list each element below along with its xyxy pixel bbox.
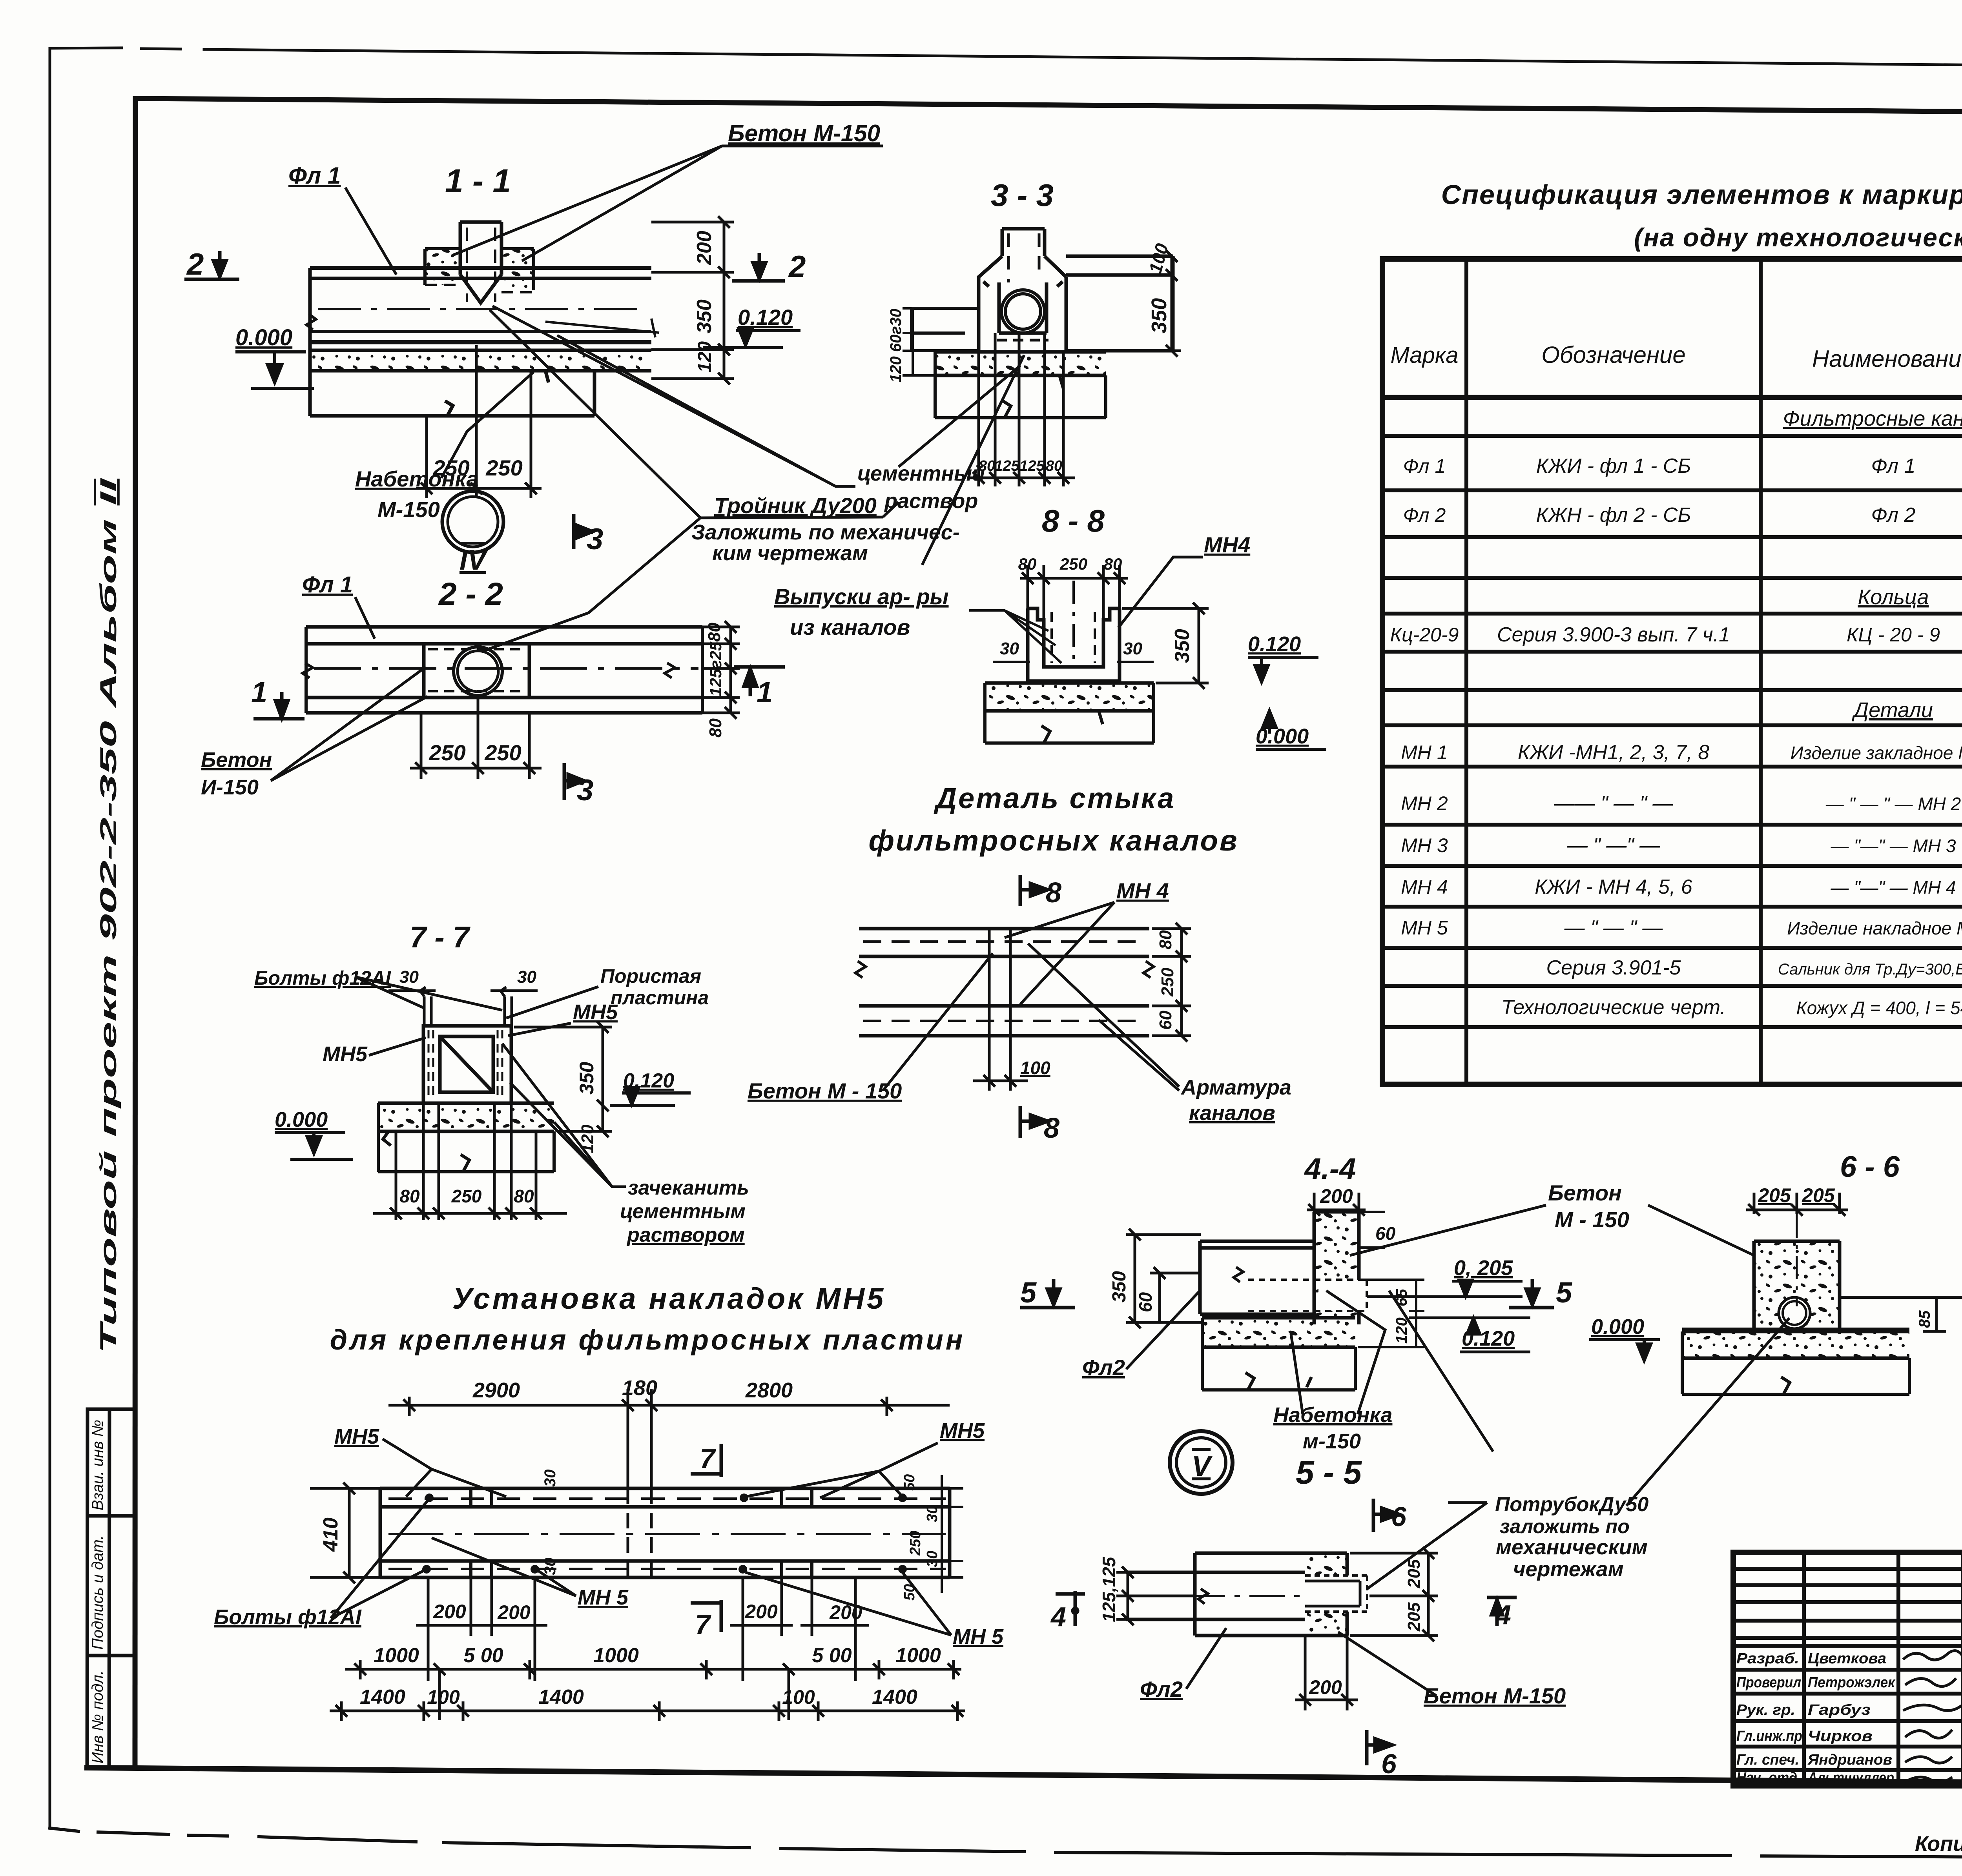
svg-text:цементным: цементным bbox=[620, 1200, 746, 1223]
svg-text:200: 200 bbox=[829, 1601, 862, 1623]
concrete column 4-4 bbox=[1248, 1212, 1367, 1324]
svg-text:Альтшуллер: Альтшуллер bbox=[1807, 1770, 1894, 1786]
svg-text:2: 2 bbox=[788, 249, 806, 284]
node marker IV circled bbox=[442, 491, 503, 576]
stipple strip below 4-4 bbox=[1202, 1318, 1355, 1390]
svg-text:Разраб.: Разраб. bbox=[1736, 1650, 1799, 1667]
svg-text:механическим: механическим bbox=[1496, 1535, 1648, 1559]
cut marker 5 (right) bbox=[1509, 1276, 1573, 1309]
svg-text:0.000: 0.000 bbox=[1591, 1315, 1644, 1339]
dim 350 (8-8) bbox=[1122, 603, 1209, 689]
svg-text:5: 5 bbox=[1556, 1276, 1573, 1309]
junction square 2-2 bbox=[424, 644, 529, 698]
right dim chain 1-1 bbox=[651, 216, 734, 384]
drawing frame bottom bbox=[87, 1768, 1962, 1786]
right dim chain (styka) bbox=[1152, 923, 1191, 1042]
section cut marker 2 (right) bbox=[732, 249, 806, 284]
U channel 8-8 bbox=[1028, 608, 1120, 681]
svg-text:1000: 1000 bbox=[895, 1644, 941, 1667]
mid dims 65/120 (4-4) bbox=[1358, 1280, 1424, 1347]
svg-text:0.000: 0.000 bbox=[275, 1108, 328, 1131]
right dim 205/205 (5-5) bbox=[1350, 1547, 1438, 1641]
svg-text:Наименование: Наименование bbox=[1812, 346, 1962, 372]
small dim 70 inside slab bbox=[545, 319, 659, 337]
svg-text:125: 125 bbox=[1019, 458, 1045, 474]
cut marker 6 (bottom) bbox=[1367, 1730, 1397, 1779]
svg-text:каналов: каналов bbox=[1189, 1101, 1275, 1125]
top dim 80 250 80 (8-8) bbox=[1020, 565, 1128, 620]
svg-text:— " —" —: — " —" — bbox=[1567, 834, 1660, 857]
svg-text:Набетонка: Набетонка bbox=[1273, 1403, 1392, 1427]
svg-text:350: 350 bbox=[1171, 629, 1194, 663]
svg-text:30: 30 bbox=[517, 967, 536, 987]
title block signature labels bbox=[1736, 1650, 1896, 1786]
svg-text:1: 1 bbox=[251, 676, 267, 709]
left dim chain 3-3 bbox=[903, 308, 950, 375]
channel stub 3-3 bbox=[1002, 229, 1045, 282]
right dim chain 2-2 bbox=[702, 621, 740, 719]
label Fl2 (4-4) bbox=[1082, 1291, 1200, 1380]
slab left 3-3 bbox=[912, 308, 979, 351]
section cut marker 3 (bottom) bbox=[564, 763, 593, 807]
drawing frame top bbox=[135, 98, 1962, 115]
level mark 0.120 (1-1) bbox=[703, 305, 800, 348]
section cut marker 3 (top) bbox=[574, 514, 603, 556]
svg-text:30: 30 bbox=[1123, 639, 1142, 658]
svg-text:— "—" — МН 3: — "—" — МН 3 bbox=[1831, 836, 1956, 856]
svg-text:4: 4 bbox=[1050, 1601, 1066, 1632]
centerline 5-5 bbox=[1130, 1595, 1303, 1597]
joint verticals bbox=[989, 929, 1010, 1036]
svg-text:чертежам: чертежам bbox=[1513, 1557, 1624, 1581]
30 dims (7-7) bbox=[388, 989, 538, 992]
right dims 85 (6-6) bbox=[1923, 1297, 1946, 1331]
svg-text:(на одну технологическую сек: (на одну технологическую секцию) bbox=[1634, 223, 1962, 252]
label MN5 top-left (plan) bbox=[334, 1425, 506, 1497]
svg-text:0.120: 0.120 bbox=[1248, 632, 1301, 656]
dim 100 below (styka) bbox=[973, 1036, 1028, 1091]
svg-text:Кц-20-9: Кц-20-9 bbox=[1390, 624, 1459, 646]
label bolty f12AI (plan) bbox=[214, 1501, 428, 1629]
stipple base (7-7) bbox=[378, 1103, 554, 1172]
right side small dims (plan) bbox=[942, 1475, 963, 1593]
label MN5 left (7-7) bbox=[323, 1038, 426, 1066]
svg-text:200: 200 bbox=[1309, 1676, 1342, 1698]
plan band bbox=[380, 1488, 950, 1577]
svg-text:Спецификация элементов к ма: Спецификация элементов к маркировочной с… bbox=[1441, 179, 1962, 210]
label Beton M-150 (between 4-4 and 6-6) bbox=[1350, 1180, 1754, 1255]
svg-text:м-150: м-150 bbox=[1303, 1430, 1361, 1453]
svg-text:80: 80 bbox=[514, 1186, 534, 1206]
svg-text:250: 250 bbox=[1158, 967, 1177, 997]
svg-text:30: 30 bbox=[542, 1470, 559, 1487]
svg-text:7 - 7: 7 - 7 bbox=[410, 921, 471, 954]
svg-text:1400: 1400 bbox=[872, 1686, 917, 1708]
label Nabetonka M-150 (4-4) bbox=[1273, 1291, 1392, 1453]
svg-text:60: 60 bbox=[1135, 1292, 1156, 1312]
svg-text:МН 5: МН 5 bbox=[578, 1586, 629, 1609]
svg-text:Выпуски ар- ры: Выпуски ар- ры bbox=[774, 584, 949, 609]
section cut marker 1 (left of 2-2) bbox=[251, 676, 305, 719]
svg-text:4.-4: 4.-4 bbox=[1304, 1152, 1356, 1186]
left dim 125/125 (5-5) bbox=[1116, 1566, 1193, 1625]
svg-text:80: 80 bbox=[706, 718, 725, 738]
svg-text:Подпись и дат.: Подпись и дат. bbox=[89, 1535, 106, 1650]
svg-text:из каналов: из каналов bbox=[790, 615, 910, 639]
svg-text:Яндрианов: Яндрианов bbox=[1807, 1752, 1892, 1768]
svg-text:фильтросных каналов: фильтросных каналов bbox=[868, 824, 1238, 857]
band 4-4 bbox=[1200, 1241, 1314, 1314]
label MN4 (styka) bbox=[1005, 878, 1169, 1004]
svg-text:Набетонка: Набетонка bbox=[355, 466, 479, 491]
svg-text:— " — " — МН 2: — " — " — МН 2 bbox=[1825, 794, 1961, 814]
svg-text:1400: 1400 bbox=[538, 1686, 584, 1708]
cut marker 4 (left) bbox=[1050, 1591, 1085, 1632]
svg-text:8 - 8: 8 - 8 bbox=[1042, 503, 1105, 538]
svg-text:6: 6 bbox=[1381, 1749, 1397, 1779]
sheet outer border top (partly dashed) bbox=[50, 48, 1962, 70]
svg-text:0.000: 0.000 bbox=[235, 325, 292, 350]
svg-text:80: 80 bbox=[705, 623, 724, 642]
svg-text:МН 4: МН 4 bbox=[1116, 878, 1169, 903]
cut marker 6 (top) bbox=[1373, 1499, 1407, 1532]
svg-text:IV: IV bbox=[460, 545, 489, 576]
svg-text:Кольца: Кольца bbox=[1858, 585, 1929, 609]
svg-text:МН5: МН5 bbox=[334, 1425, 379, 1448]
svg-text:Чирков: Чирков bbox=[1808, 1728, 1873, 1745]
svg-text:МН 1: МН 1 bbox=[1401, 741, 1448, 763]
top dim row (2900|180|2800) bbox=[388, 1389, 950, 1452]
band 5-5 thin left part bbox=[1126, 1572, 1195, 1619]
svg-text:125: 125 bbox=[994, 458, 1019, 474]
drawing frame left bbox=[135, 98, 135, 1768]
svg-text:100: 100 bbox=[427, 1686, 460, 1708]
right dim 350/100 (3-3) bbox=[1150, 250, 1181, 357]
svg-text:Бетон М-150: Бетон М-150 bbox=[728, 120, 880, 146]
level 0.120 (7-7) bbox=[610, 1069, 691, 1106]
svg-text:125,125: 125,125 bbox=[1099, 1556, 1119, 1622]
svg-text:2900: 2900 bbox=[472, 1379, 520, 1402]
svg-text:2 - 2: 2 - 2 bbox=[438, 576, 503, 612]
level 0.000 (7-7) bbox=[275, 1108, 353, 1159]
bolt dots on plan bbox=[422, 1494, 907, 1574]
svg-text:8: 8 bbox=[1046, 877, 1061, 909]
svg-text:зачеканить: зачеканить bbox=[628, 1177, 749, 1199]
svg-text:V: V bbox=[1192, 1451, 1213, 1482]
svg-text:Инв № подл.: Инв № подл. bbox=[89, 1670, 106, 1763]
svg-text:3 - 3: 3 - 3 bbox=[991, 178, 1054, 213]
svg-text:Фл 1: Фл 1 bbox=[288, 162, 341, 189]
label vypuski ar-ry bbox=[774, 584, 1061, 663]
svg-text:1000: 1000 bbox=[374, 1644, 419, 1667]
stipple base 3-3 bbox=[935, 352, 1106, 375]
svg-text:200: 200 bbox=[744, 1601, 778, 1623]
label cement mortar bbox=[492, 306, 985, 513]
sheet outer border left bbox=[49, 48, 51, 1828]
bottom dim 80|250|80 (7-7) bbox=[373, 1103, 567, 1220]
svg-text:80: 80 bbox=[1018, 555, 1037, 573]
level 0.120 (8-8) bbox=[1248, 632, 1318, 682]
svg-text:МН5: МН5 bbox=[940, 1419, 985, 1443]
foundation slab 1-1 bbox=[310, 371, 594, 416]
svg-text:250: 250 bbox=[907, 1531, 924, 1556]
svg-text:200: 200 bbox=[497, 1601, 531, 1623]
label Fl2 (5-5) bbox=[1140, 1628, 1226, 1701]
svg-text:Арматура: Арматура bbox=[1180, 1076, 1291, 1099]
foundation below 3-3 bbox=[935, 352, 1106, 418]
label Beton M-150 (2-2) bbox=[201, 667, 428, 799]
label Fl1 (1-1) bbox=[288, 162, 396, 275]
svg-text:заложить по: заложить по bbox=[1500, 1515, 1630, 1537]
svg-text:Серия 3.900-3 вып. 7 ч.1: Серия 3.900-3 вып. 7 ч.1 bbox=[1497, 623, 1730, 646]
svg-text:80: 80 bbox=[399, 1186, 420, 1206]
leader from troinik to 3-3 channel bbox=[922, 355, 1024, 565]
square channel (7-7) bbox=[423, 1026, 511, 1103]
bottom dim 250|250 (2-2) bbox=[410, 698, 542, 779]
section cut marker 1 (right of 2-2) bbox=[734, 667, 785, 709]
svg-text:Сальник для Тр.Ду=300,Вк=200: Сальник для Тр.Ду=300,Вк=200 bbox=[1778, 961, 1962, 978]
cut marker 4 (right) bbox=[1487, 1597, 1517, 1630]
svg-text:250: 250 bbox=[1059, 555, 1087, 573]
svg-text:МН 2: МН 2 bbox=[1401, 792, 1448, 814]
svg-text:60: 60 bbox=[1375, 1223, 1396, 1244]
band 5-5 main part bbox=[1195, 1553, 1305, 1636]
title block grid bbox=[1733, 1552, 1962, 1786]
svg-text:Детали: Детали bbox=[1852, 698, 1933, 722]
concrete blocks beside tee 1-1 bbox=[425, 249, 534, 292]
svg-text:МН 5: МН 5 bbox=[1401, 917, 1448, 939]
svg-text:120: 120 bbox=[578, 1124, 597, 1153]
svg-text:КЖИ - фл 1 - СБ: КЖИ - фл 1 - СБ bbox=[1536, 455, 1691, 477]
svg-text:Взаи. инв №: Взаи. инв № bbox=[89, 1420, 106, 1510]
label Fl1 (2-2) bbox=[302, 572, 375, 639]
label MN5 mid (plan) bbox=[432, 1538, 629, 1609]
svg-text:2: 2 bbox=[186, 247, 204, 281]
svg-text:205: 205 bbox=[1404, 1559, 1424, 1588]
label Nabetonka M-150 (1-1) bbox=[355, 372, 534, 522]
svg-text:МН 3: МН 3 bbox=[1401, 834, 1448, 856]
spec table grid bbox=[1382, 259, 1962, 1084]
svg-text:250: 250 bbox=[485, 455, 522, 480]
svg-text:Болты ф12АI: Болты ф12АI bbox=[254, 967, 391, 989]
svg-text:7: 7 bbox=[695, 1609, 711, 1640]
svg-text:120: 120 bbox=[695, 341, 715, 373]
bolts (7-7) bbox=[420, 987, 512, 1026]
svg-text:30: 30 bbox=[542, 1558, 559, 1575]
svg-text:Фл 2: Фл 2 bbox=[1871, 504, 1916, 526]
svg-text:Фл2: Фл2 bbox=[1140, 1677, 1183, 1701]
svg-text:200: 200 bbox=[693, 231, 716, 265]
svg-text:Фл2: Фл2 bbox=[1082, 1355, 1125, 1380]
dim row 1400/100/1400 bbox=[330, 1701, 965, 1721]
label bolty f12AI (7-7) bbox=[254, 967, 502, 1010]
label Beton M-150 (5-5) bbox=[1338, 1632, 1566, 1708]
plan segment dividers bbox=[471, 1452, 812, 1577]
svg-text:Пористая: Пористая bbox=[600, 965, 701, 987]
svg-text:МН4: МН4 bbox=[1204, 532, 1250, 557]
left stamp strip box bbox=[87, 1409, 135, 1768]
pipe circle 3-3 bbox=[1001, 290, 1045, 333]
concrete block 5-5 bbox=[1305, 1553, 1367, 1636]
svg-text:Бетон: Бетон bbox=[1548, 1180, 1622, 1205]
svg-text:Бетон: Бетон bbox=[201, 748, 272, 772]
svg-text:410: 410 bbox=[319, 1517, 342, 1552]
slab right 3-3 bbox=[1066, 256, 1173, 351]
svg-text:Изделие закладное МН1: Изделие закладное МН1 bbox=[1791, 743, 1962, 763]
dim 205 205 above (6-6) bbox=[1746, 1193, 1848, 1216]
svg-text:пластина: пластина bbox=[611, 987, 709, 1009]
svg-text:80: 80 bbox=[1104, 555, 1122, 573]
svg-text:Петрожэлек: Петрожэлек bbox=[1808, 1674, 1896, 1691]
level 0.000 (6-6) bbox=[1589, 1315, 1660, 1361]
svg-text:250: 250 bbox=[429, 740, 465, 765]
slab band 1-1 bbox=[306, 268, 651, 416]
title block signatures squiggles bbox=[1903, 1651, 1962, 1782]
svg-text:КЖН - фл 2 - СБ: КЖН - фл 2 - СБ bbox=[1536, 504, 1691, 526]
svg-text:М - 150: М - 150 bbox=[1555, 1207, 1629, 1232]
level 0.120 (4-4) bbox=[1409, 1318, 1530, 1352]
svg-text:205: 205 bbox=[1404, 1602, 1424, 1632]
svg-text:Цветкова: Цветкова bbox=[1808, 1650, 1886, 1667]
svg-text:Кожух Д = 400, l = 5400: Кожух Д = 400, l = 5400 bbox=[1796, 998, 1962, 1018]
svg-text:Типовой проект 902-2-350: Типовой проект 902-2-350 Альбом II bbox=[96, 477, 121, 1353]
svg-text:КЦ - 20 - 9: КЦ - 20 - 9 bbox=[1847, 624, 1940, 646]
svg-text:7: 7 bbox=[700, 1443, 716, 1474]
svg-text:1400: 1400 bbox=[360, 1686, 405, 1708]
svg-text:6 - 6: 6 - 6 bbox=[1840, 1150, 1900, 1184]
plan band dashed bolt lines bbox=[388, 1499, 946, 1569]
long leader from nabetonka area to 5-5 bbox=[1389, 1291, 1493, 1452]
svg-text:Гл. спеч.: Гл. спеч. bbox=[1736, 1752, 1799, 1768]
dashed lines in band bbox=[863, 942, 1146, 1021]
nabetonka stipple band 1-1 bbox=[310, 350, 651, 371]
label MN5 right (7-7) bbox=[508, 1000, 618, 1036]
svg-text:ПотрубокДу50: ПотрубокДу50 bbox=[1495, 1493, 1648, 1516]
svg-text:80: 80 bbox=[979, 458, 995, 474]
cut marker 8 (bottom) bbox=[1020, 1106, 1059, 1144]
svg-text:Заложить по механичес-: Заложить по механичес- bbox=[691, 521, 960, 544]
svg-text:30: 30 bbox=[1000, 639, 1019, 658]
svg-text:200: 200 bbox=[1320, 1185, 1353, 1207]
svg-text:Рук. гр.: Рук. гр. bbox=[1736, 1702, 1795, 1718]
svg-text:350: 350 bbox=[576, 1062, 598, 1095]
slab band 6-6 bbox=[1682, 1297, 1962, 1329]
svg-text:Копировал: Копировал bbox=[1915, 1832, 1962, 1856]
svg-text:КЖИ - МН 4, 5, 6: КЖИ - МН 4, 5, 6 bbox=[1535, 876, 1692, 898]
svg-text:1: 1 bbox=[757, 676, 773, 709]
30 dims (8-8) bbox=[993, 661, 1154, 663]
level 0.205 (4-4) bbox=[1367, 1256, 1523, 1297]
svg-text:80: 80 bbox=[1156, 930, 1175, 949]
left dims 350/60 (4-4) bbox=[1126, 1229, 1201, 1328]
level mark 0.000 (1-1) bbox=[235, 325, 314, 388]
band detail styka bbox=[855, 929, 1154, 1036]
svg-text:250: 250 bbox=[484, 740, 521, 765]
svg-text:МН5: МН5 bbox=[323, 1042, 368, 1066]
label zachekanit bbox=[502, 1044, 749, 1246]
label Beton M-150 (top) bbox=[453, 120, 883, 261]
svg-text:5 - 5: 5 - 5 bbox=[1296, 1454, 1362, 1491]
label MN5 bottom-right (plan) bbox=[746, 1572, 1004, 1648]
svg-text:Проверил: Проверил bbox=[1736, 1674, 1801, 1691]
concrete pier 6-6 bbox=[1754, 1214, 1840, 1329]
label armatura kanalov bbox=[1028, 943, 1291, 1125]
svg-text:350: 350 bbox=[1109, 1271, 1130, 1302]
svg-text:Гл.инж.пр: Гл.инж.пр bbox=[1736, 1728, 1802, 1745]
channel body 3-3 bbox=[979, 256, 1066, 352]
svg-text:КЖИ -МН1, 2, 3, 7, 8: КЖИ -МН1, 2, 3, 7, 8 bbox=[1518, 741, 1709, 764]
plan centerline bbox=[388, 1533, 946, 1535]
svg-text:Серия 3.901-5: Серия 3.901-5 bbox=[1546, 956, 1681, 979]
svg-text:раствор: раствор bbox=[884, 489, 978, 513]
label MN5 top-right (plan) bbox=[746, 1419, 985, 1498]
svg-text:Тройник Ду200: Тройник Ду200 bbox=[714, 493, 877, 518]
svg-text:Марка: Марка bbox=[1390, 342, 1458, 368]
svg-text:3: 3 bbox=[587, 523, 603, 556]
svg-text:Гарбуз: Гарбуз bbox=[1808, 1702, 1871, 1718]
svg-text:Бетон М - 150: Бетон М - 150 bbox=[748, 1078, 902, 1103]
svg-text:раствором: раствором bbox=[626, 1224, 745, 1246]
label Beton M-150 (styka) bbox=[748, 953, 993, 1103]
svg-text:200: 200 bbox=[433, 1601, 466, 1623]
cut marker 5 (left) bbox=[1020, 1276, 1075, 1309]
svg-text:1 - 1: 1 - 1 bbox=[445, 162, 511, 199]
svg-text:Изделие накладное МН 5: Изделие накладное МН 5 bbox=[1787, 918, 1962, 938]
slab band 2-2 bbox=[303, 627, 702, 713]
svg-text:И-150: И-150 bbox=[201, 776, 259, 799]
svg-text:Технологические черт.: Технологические черт. bbox=[1501, 996, 1726, 1019]
slab centerline 1-1 bbox=[318, 308, 647, 310]
svg-text:5 00: 5 00 bbox=[463, 1644, 503, 1667]
svg-text:50: 50 bbox=[901, 1584, 918, 1601]
svg-text:МН 5: МН 5 bbox=[953, 1625, 1004, 1648]
stipple base 8-8 bbox=[985, 683, 1154, 743]
svg-text:Деталь стыка: Деталь стыка bbox=[934, 782, 1176, 814]
svg-text:85: 85 bbox=[1916, 1310, 1933, 1328]
dim 350/120 (7-7) bbox=[514, 1021, 612, 1137]
svg-text:—— " — " —: —— " — " — bbox=[1554, 792, 1674, 815]
label potrubok Du50 bbox=[1367, 1318, 1789, 1589]
bottom dim 250|250 (1-1) bbox=[416, 345, 542, 498]
label troinik Du200 bbox=[483, 310, 960, 651]
level 0.000 (8-8) bbox=[1256, 711, 1326, 749]
svg-text:Установка накладок МН5: Установка накладок МН5 bbox=[452, 1282, 886, 1315]
centerline 2-2 bbox=[314, 667, 698, 670]
svg-text:5: 5 bbox=[1020, 1276, 1037, 1309]
svg-text:50: 50 bbox=[901, 1474, 918, 1491]
sheet outer border bottom (partly dashed) bbox=[50, 1828, 1962, 1860]
svg-text:100: 100 bbox=[1020, 1058, 1050, 1078]
cut marker 7 (bottom) bbox=[691, 1600, 721, 1640]
svg-text:1000: 1000 bbox=[593, 1644, 639, 1667]
cut marker 8 (top) bbox=[1020, 875, 1061, 909]
svg-text:для крепления фильтросных: для крепления фильтросных пластин bbox=[330, 1324, 965, 1356]
leader from cement mortar to 3-3 bbox=[899, 366, 1020, 467]
foundation stipple 6-6 bbox=[1682, 1331, 1909, 1394]
svg-text:0.120: 0.120 bbox=[738, 305, 793, 330]
svg-text:Фл 1: Фл 1 bbox=[1871, 455, 1916, 477]
svg-text:Фл 1: Фл 1 bbox=[302, 572, 353, 597]
dim 200 above (4-4) bbox=[1307, 1193, 1366, 1216]
dim row 200s bbox=[416, 1577, 869, 1681]
svg-text:5 00: 5 00 bbox=[812, 1644, 852, 1667]
svg-text:205: 205 bbox=[1802, 1184, 1835, 1206]
node marker V circled bbox=[1170, 1431, 1233, 1494]
svg-text:0, 205: 0, 205 bbox=[1454, 1256, 1513, 1280]
svg-text:— " — " —: — " — " — bbox=[1564, 916, 1663, 939]
svg-text:— "—" — МН 4: — "—" — МН 4 bbox=[1831, 877, 1956, 898]
svg-text:Фл 1: Фл 1 bbox=[1403, 455, 1446, 477]
